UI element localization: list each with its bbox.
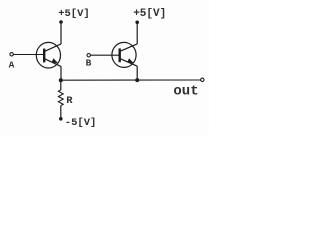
wire: B to Q2 base [90,54,119,56]
wire: right +5V terminal to Q2 collector [136,22,138,44]
svg-text:-5[V]: -5[V] [65,117,97,129]
svg-text:+5[V]: +5[V] [58,8,90,20]
transistor Q2 [112,42,137,67]
svg-text:R: R [66,95,73,107]
wire: resistor R to -5V terminal [60,106,62,119]
junction: Q1 emitter / rail [59,78,63,82]
svg-text:A: A [9,60,15,71]
svg-text:+5[V]: +5[V] [133,8,166,20]
svg-text:out: out [173,83,198,99]
wire: output rail [61,79,201,81]
wire: rail junction down to resistor R [60,80,62,90]
wire: left +5V terminal to Q1 collector [60,22,62,44]
transistor Q1 [36,42,61,68]
resistor R [58,90,63,106]
wire: A to Q1 base [13,54,44,56]
input terminal B [87,54,90,57]
input terminal A [10,53,13,56]
wire: Q2 emitter down to rail [136,66,138,80]
svg-text:B: B [86,57,92,68]
+5V terminal dot (right) [135,21,139,25]
wire: Q1 emitter down to rail [60,66,62,80]
+5V terminal dot (left) [59,20,63,24]
-5V terminal dot [59,117,63,121]
output terminal [201,78,204,81]
junction: Q2 emitter / rail [135,78,139,82]
